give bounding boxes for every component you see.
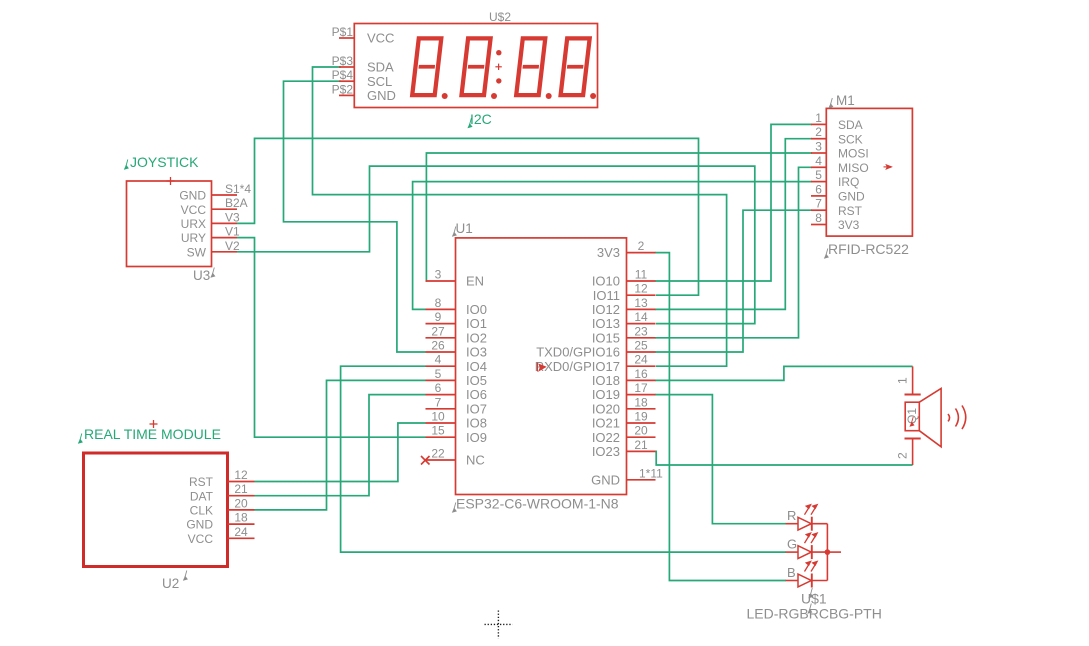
svg-text:12: 12: [634, 282, 648, 296]
svg-text:NC: NC: [466, 453, 485, 468]
svg-text:U$2: U$2: [489, 10, 511, 24]
svg-text:EN: EN: [466, 274, 484, 289]
svg-text:IO23: IO23: [592, 444, 620, 459]
svg-text:IRQ: IRQ: [838, 175, 859, 189]
svg-text:IO15: IO15: [592, 330, 620, 345]
svg-text:20: 20: [634, 424, 648, 438]
svg-text:VCC: VCC: [188, 532, 214, 546]
svg-text:P$2: P$2: [332, 82, 354, 96]
svg-text:7: 7: [435, 395, 442, 409]
svg-text:26: 26: [431, 339, 445, 353]
svg-text:B: B: [787, 565, 796, 580]
svg-text:6: 6: [435, 381, 442, 395]
svg-text:18: 18: [634, 395, 648, 409]
svg-text:ESP32-C6-WROOM-1-N8: ESP32-C6-WROOM-1-N8: [456, 496, 619, 512]
svg-text:IO4: IO4: [466, 359, 487, 374]
svg-text:GND: GND: [367, 88, 396, 103]
svg-text:11: 11: [635, 268, 648, 282]
svg-text:3V3: 3V3: [597, 245, 620, 260]
svg-text:25: 25: [634, 339, 648, 353]
svg-text:21: 21: [234, 482, 248, 496]
svg-text:IO5: IO5: [466, 373, 487, 388]
svg-text:JOYSTICK: JOYSTICK: [130, 154, 199, 170]
svg-text:IO2: IO2: [466, 330, 487, 345]
svg-text:4: 4: [815, 154, 822, 168]
svg-text:5: 5: [815, 168, 822, 182]
svg-text:9: 9: [435, 310, 442, 324]
svg-text:U$1: U$1: [801, 591, 827, 607]
svg-text:3: 3: [815, 140, 822, 154]
svg-text:7: 7: [815, 197, 822, 211]
svg-text:MOSI: MOSI: [838, 147, 869, 161]
svg-text:18: 18: [234, 511, 248, 525]
svg-text:24: 24: [634, 353, 648, 367]
svg-text:IO1: IO1: [466, 316, 487, 331]
svg-text:SDA: SDA: [838, 118, 863, 132]
svg-text:TXD0/GPIO16: TXD0/GPIO16: [536, 345, 620, 360]
svg-text:RST: RST: [838, 204, 863, 218]
svg-text:RXD0/GPIO17: RXD0/GPIO17: [535, 359, 620, 374]
svg-text:SCL: SCL: [367, 74, 392, 89]
svg-text:IO21: IO21: [592, 416, 620, 431]
svg-text:20: 20: [234, 496, 248, 510]
svg-text:IO8: IO8: [466, 416, 487, 431]
svg-text:16: 16: [634, 367, 648, 381]
svg-text:8: 8: [435, 296, 442, 310]
svg-text:17: 17: [634, 381, 648, 395]
svg-text:GND: GND: [179, 189, 206, 203]
svg-text:12: 12: [234, 468, 248, 482]
svg-text:GND: GND: [186, 518, 213, 532]
svg-text:RST: RST: [189, 475, 214, 489]
svg-text:6: 6: [815, 182, 822, 196]
svg-text:P$3: P$3: [332, 54, 354, 68]
svg-text:VCC: VCC: [367, 31, 394, 46]
svg-text:19: 19: [634, 410, 648, 424]
svg-text:15: 15: [431, 424, 445, 438]
svg-text:1*11: 1*11: [639, 466, 663, 480]
svg-text:IO11: IO11: [593, 288, 620, 303]
svg-text:SDA: SDA: [367, 60, 394, 75]
svg-text:5: 5: [435, 367, 442, 381]
svg-text:URY: URY: [181, 231, 206, 245]
svg-text:IO22: IO22: [592, 430, 620, 445]
svg-text:2: 2: [638, 239, 645, 253]
svg-text:IO18: IO18: [592, 373, 620, 388]
svg-text:VCC: VCC: [181, 203, 207, 217]
svg-text:IO13: IO13: [592, 316, 620, 331]
svg-text:URX: URX: [181, 217, 206, 231]
svg-text:10: 10: [431, 410, 445, 424]
svg-text:13: 13: [634, 296, 648, 310]
svg-text:CLK: CLK: [190, 504, 213, 518]
svg-text:IO6: IO6: [466, 387, 487, 402]
svg-text:V2: V2: [225, 239, 240, 253]
svg-text:S1*4: S1*4: [225, 182, 251, 196]
svg-text:LED-RGBRCBG-PTH: LED-RGBRCBG-PTH: [747, 606, 882, 622]
svg-text:14: 14: [634, 310, 648, 324]
svg-text:23: 23: [634, 324, 648, 338]
svg-text:27: 27: [431, 324, 445, 338]
svg-text:SCK: SCK: [838, 132, 863, 146]
svg-text:2: 2: [815, 125, 822, 139]
svg-text:MISO: MISO: [838, 161, 869, 175]
svg-text:3V3: 3V3: [838, 218, 860, 232]
svg-text:4: 4: [435, 353, 442, 367]
svg-text:3: 3: [435, 268, 442, 282]
svg-text:1: 1: [815, 111, 822, 125]
svg-text:21: 21: [634, 438, 648, 452]
svg-text:U3: U3: [193, 268, 210, 283]
svg-text:V3: V3: [225, 210, 240, 224]
svg-text:GND: GND: [838, 190, 865, 204]
svg-text:G: G: [787, 537, 797, 552]
svg-text:IO19: IO19: [592, 387, 620, 402]
svg-text:IO7: IO7: [466, 401, 487, 416]
svg-text:22: 22: [431, 447, 445, 461]
svg-text:P$4: P$4: [332, 68, 354, 82]
svg-text:DAT: DAT: [190, 489, 214, 503]
svg-text:IO0: IO0: [466, 302, 487, 317]
svg-text:U2: U2: [162, 576, 179, 591]
svg-text:IO10: IO10: [592, 274, 620, 289]
svg-text:SW: SW: [187, 245, 207, 259]
svg-text:I2C: I2C: [470, 111, 492, 127]
svg-text:R: R: [787, 508, 796, 523]
svg-text:M1: M1: [836, 93, 855, 108]
svg-text:1: 1: [896, 377, 910, 384]
svg-text:2: 2: [896, 452, 910, 459]
svg-text:IO20: IO20: [592, 401, 620, 416]
svg-text:RFID-RC522: RFID-RC522: [828, 241, 909, 257]
svg-text:IO12: IO12: [592, 302, 620, 317]
svg-text:B2A: B2A: [225, 196, 248, 210]
svg-text:IO9: IO9: [466, 430, 487, 445]
svg-text:REAL TIME MODULE: REAL TIME MODULE: [84, 426, 221, 442]
svg-text:U1: U1: [456, 221, 473, 236]
svg-text:IO3: IO3: [466, 345, 487, 360]
svg-text:8: 8: [815, 211, 822, 225]
svg-text:V1: V1: [225, 225, 240, 239]
svg-text:P$1: P$1: [332, 25, 354, 39]
svg-text:24: 24: [234, 525, 248, 539]
svg-text:GND: GND: [591, 472, 620, 487]
